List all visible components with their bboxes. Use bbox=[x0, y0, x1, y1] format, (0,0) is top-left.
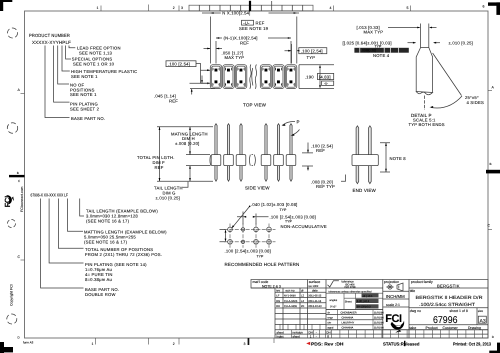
svg-text:2: 2 bbox=[173, 342, 175, 346]
svg-text:Printed: Oct 29, 2013: Printed: Oct 29, 2013 bbox=[453, 342, 491, 347]
header module position 4 (right of break) bbox=[260, 65, 272, 89]
svg-text:SEE NOTE 1: SEE NOTE 1 bbox=[71, 74, 98, 79]
svg-text:Product: Product bbox=[426, 326, 438, 330]
svg-text:tabe: tabe bbox=[410, 326, 417, 330]
svg-text:REF: REF bbox=[155, 165, 164, 170]
chamfer angle leader 25 deg bbox=[433, 53, 462, 96]
svg-text:4 SIDES: 4 SIDES bbox=[467, 100, 484, 105]
svg-text:sheet: sheet bbox=[293, 335, 301, 339]
svg-text:FROM 2 (2X1) THRU 72 (2X36) PO: FROM 2 (2X1) THRU 72 (2X36) POS. bbox=[85, 252, 162, 257]
svg-text:B: B bbox=[17, 171, 19, 175]
svg-text:LZ: LZ bbox=[301, 300, 304, 303]
tab row bbox=[410, 326, 481, 330]
svg-text:RECOMMENDED HOLE PATTERN: RECOMMENDED HOLE PATTERN bbox=[225, 262, 300, 267]
GD&T feature control frame bbox=[354, 48, 408, 53]
svg-text:appd: appd bbox=[328, 327, 334, 330]
svg-text:-: - bbox=[316, 335, 317, 339]
header module position 6 bbox=[285, 65, 297, 89]
corner mark top-left bbox=[0, 0, 12, 2]
svg-text:-U-: -U- bbox=[243, 20, 250, 25]
registration circle 3 left margin bbox=[8, 220, 16, 228]
revision table verticals bbox=[283, 288, 308, 330]
svg-text:MAX TYP: MAX TYP bbox=[225, 55, 245, 60]
corner mark bottom-left bbox=[0, 347, 13, 352]
dimension mating length DIM H bbox=[171, 127, 208, 155]
svg-text:±.008 [0.20]: ±.008 [0.20] bbox=[175, 141, 200, 146]
body break piece bbox=[250, 155, 256, 166]
svg-text:ISO 2768: ISO 2768 bbox=[345, 286, 357, 289]
svg-text:SIDE VIEW: SIDE VIEW bbox=[245, 186, 270, 191]
dimension .008 [0.20] REF TYP bbox=[311, 175, 346, 190]
svg-text:11/01/94: 11/01/94 bbox=[374, 322, 384, 325]
svg-text:(SEE NOTE 16 & 17): (SEE NOTE 16 & 17) bbox=[86, 219, 130, 224]
header module position 2 bbox=[223, 65, 235, 89]
svg-text:BERGSTIK II HEADER D/R: BERGSTIK II HEADER D/R bbox=[416, 295, 484, 300]
svg-text:NOTE 4: NOTE 4 bbox=[373, 53, 390, 58]
bottom mini grid rows bbox=[275, 330, 488, 334]
svg-text:PRODUCT NUMBER: PRODUCT NUMBER bbox=[29, 33, 71, 38]
svg-text:SEE NOTE 1: SEE NOTE 1 bbox=[70, 92, 97, 97]
registration circle 2 left margin bbox=[7, 123, 17, 133]
svg-text:6-30 | ±0.2: 6-30 | ±0.2 bbox=[357, 300, 370, 303]
svg-text:6: 6 bbox=[483, 5, 485, 9]
svg-text:form A3: form A3 bbox=[23, 341, 34, 345]
mini cells in last revision row bbox=[280, 324, 320, 329]
svg-text:2011-05-25: 2011-05-25 bbox=[308, 295, 322, 298]
svg-text:index: index bbox=[277, 335, 285, 339]
dimension .190 [4.83] bbox=[299, 65, 334, 89]
svg-text:SEE NOTE 19: SEE NOTE 19 bbox=[239, 26, 269, 31]
side view pins bbox=[215, 124, 292, 182]
svg-text:Sheet: Sheet bbox=[345, 301, 352, 304]
top border zone ticks and numbers bbox=[97, 5, 485, 11]
svg-text:.100/2.54cc STRAIGHT: .100/2.54cc STRAIGHT bbox=[419, 302, 475, 307]
detail P break line at bottom bbox=[416, 92, 432, 95]
svg-text:[4.83]: [4.83] bbox=[319, 74, 331, 79]
svg-text:ecn no: ecn no bbox=[286, 289, 295, 293]
svg-text:CHIANNA: CHIANNA bbox=[342, 327, 354, 330]
module inner cavity walls bbox=[212, 66, 221, 87]
dimension total pin length DIM F bbox=[137, 127, 175, 181]
svg-text:dr: dr bbox=[301, 289, 304, 293]
svg-text:±.010 [0.25]: ±.010 [0.25] bbox=[449, 40, 474, 45]
svg-text:±.010 [0.25]: ±.010 [0.25] bbox=[156, 195, 181, 200]
svg-text:date: date bbox=[312, 289, 318, 293]
svg-text:TYP: TYP bbox=[285, 219, 292, 223]
svg-text:11/01/94: 11/01/94 bbox=[374, 311, 384, 314]
main vertical dividers bbox=[308, 280, 478, 339]
svg-text:projection: projection bbox=[384, 280, 399, 284]
revision rows bbox=[276, 295, 322, 309]
surface checkmark symbol bbox=[328, 281, 339, 287]
left frame centering mark bbox=[9, 175, 25, 177]
boxed dimension .100 [2.54] left with leader to pin rows bbox=[166, 61, 210, 84]
svg-text:Drawing: Drawing bbox=[468, 326, 481, 330]
svg-text:CU-A-0A05: CU-A-0A05 bbox=[284, 300, 298, 303]
svg-text:1: 1 bbox=[92, 342, 94, 346]
svg-text:.100 [2.54]: .100 [2.54] bbox=[168, 62, 190, 67]
projection column rows bbox=[383, 291, 409, 307]
corner mark top-right bbox=[488, 2, 500, 5]
svg-text:DOUBLE ROW: DOUBLE ROW bbox=[85, 292, 116, 297]
dimension N X.100[2.54] bbox=[202, 11, 299, 64]
svg-text:2: 2 bbox=[173, 6, 175, 10]
svg-text:LF: LF bbox=[276, 295, 279, 298]
header module position 3 bbox=[235, 65, 247, 89]
revision table header bbox=[276, 289, 318, 293]
svg-text:END VIEW: END VIEW bbox=[353, 188, 377, 193]
registration circle 4 left margin bbox=[7, 314, 17, 324]
svg-text:ZK: ZK bbox=[301, 305, 305, 308]
svg-text:scale 2:1: scale 2:1 bbox=[386, 303, 400, 307]
svg-text:CU-A-1655: CU-A-1655 bbox=[284, 305, 298, 308]
tree drop lines bbox=[45, 46, 70, 118]
inner corner details of modules bbox=[213, 68, 295, 87]
svg-text:Customer: Customer bbox=[443, 326, 459, 330]
svg-text:rev: rev bbox=[276, 289, 281, 293]
end view pins bbox=[356, 126, 371, 184]
leader for .040 dim bbox=[233, 207, 250, 228]
svg-text:BERGSTIK: BERGSTIK bbox=[437, 284, 460, 289]
svg-text:engr: engr bbox=[328, 317, 333, 320]
svg-text:STATUS:Released: STATUS:Released bbox=[383, 342, 420, 347]
svg-text:N X.100[2.54]: N X.100[2.54] bbox=[222, 11, 250, 16]
boxed dimension .100 [2.54] TYP right bbox=[285, 44, 327, 64]
third angle projection symbol bbox=[388, 285, 392, 289]
svg-text:REF TYP: REF TYP bbox=[316, 184, 335, 189]
pin cross-sections top row bbox=[215, 69, 293, 72]
svg-text:-U-: -U- bbox=[324, 82, 328, 86]
svg-text:11/01/94: 11/01/94 bbox=[374, 317, 384, 320]
svg-text:2013-10-23: 2013-10-23 bbox=[308, 305, 322, 308]
svg-text:MAX TYP: MAX TYP bbox=[364, 30, 384, 35]
svg-text:dr: dr bbox=[328, 311, 330, 314]
header module position 5 bbox=[273, 65, 285, 89]
svg-text:[].025 [0.64]±.001 [0.03]: [].025 [0.64]±.001 [0.03] bbox=[343, 40, 392, 45]
break lines in top view body bbox=[250, 65, 251, 89]
header row line bbox=[251, 287, 488, 289]
dimension NOTE 8 bbox=[380, 143, 406, 172]
svg-text:P: P bbox=[297, 120, 300, 125]
svg-text:dwg no: dwg no bbox=[410, 309, 421, 313]
svg-text:surface: surface bbox=[309, 280, 321, 284]
svg-text:size: size bbox=[478, 309, 484, 313]
revision table row lines bbox=[275, 292, 326, 324]
title block outline bbox=[251, 280, 488, 339]
bottom border zone ticks and numbers bbox=[92, 342, 246, 346]
dimension .100 [2.54] +-.003 [0.08] TYP horizontal bbox=[243, 212, 256, 225]
svg-text:REF: REF bbox=[240, 40, 249, 45]
registration circle 1 left margin bbox=[8, 28, 18, 38]
svg-text:67996: 67996 bbox=[433, 315, 458, 326]
size A3 bbox=[478, 316, 486, 323]
svg-text:TYP: TYP bbox=[257, 254, 264, 258]
dimension .100 [2.54] REF right of side view bbox=[302, 143, 333, 171]
dimension .045 [1.14] REF bbox=[154, 76, 215, 104]
dimension .050 [1.27] MAX TYP bbox=[204, 48, 245, 60]
red status line bbox=[306, 342, 491, 347]
left end radius of body bbox=[209, 155, 212, 165]
svg-text:TYP: TYP bbox=[307, 55, 316, 60]
svg-text:PDS: Rev :DH: PDS: Rev :DH bbox=[311, 342, 344, 347]
hole circles row 2 bbox=[228, 240, 233, 245]
svg-text:DG: DG bbox=[276, 300, 280, 303]
scale strip top center bbox=[189, 1, 313, 11]
svg-text:.100 [2.54]: .100 [2.54] bbox=[301, 49, 323, 54]
svg-text:5: 5 bbox=[407, 6, 409, 10]
svg-text:NOTE 8: NOTE 8 bbox=[390, 156, 407, 161]
svg-text:REF: REF bbox=[256, 20, 265, 25]
svg-text:67996-X XX-XXX XXX LF: 67996-X XX-XXX XXX LF bbox=[31, 193, 69, 198]
svg-text:3: 3 bbox=[181, 6, 183, 10]
svg-text:FCI: FCI bbox=[385, 313, 402, 325]
svg-text:≤6 | ±0.1: ≤6 | ±0.1 bbox=[363, 295, 374, 298]
svg-text:CHIANNA: CHIANNA bbox=[342, 317, 354, 320]
svg-text:DH: DH bbox=[276, 305, 280, 308]
sheet index labels bbox=[277, 331, 331, 339]
svg-text:B: B bbox=[490, 162, 492, 166]
svg-text:CHENBAKER: CHENBAKER bbox=[341, 311, 357, 314]
svg-text:REF: REF bbox=[316, 148, 325, 153]
svg-text:Copyright FCI: Copyright FCI bbox=[10, 284, 14, 306]
svg-text:SEE SHEET 2: SEE SHEET 2 bbox=[70, 107, 100, 112]
dimension extension lines side view bbox=[157, 127, 213, 181]
svg-text:.190: .190 bbox=[305, 75, 314, 80]
hole circles row 1 bbox=[228, 227, 233, 232]
svg-text:SEE NOTE 1 OR 10: SEE NOTE 1 OR 10 bbox=[73, 61, 115, 66]
svg-text:BASE PART NO.: BASE PART NO. bbox=[71, 116, 105, 121]
svg-text:angles: angles bbox=[330, 299, 338, 302]
svg-text:FCIconnect.com: FCIconnect.com bbox=[20, 186, 24, 212]
svg-text:REF: REF bbox=[169, 99, 178, 104]
svg-text:11/01/94: 11/01/94 bbox=[374, 327, 384, 330]
svg-text:NON-ACCUMULATIVE: NON-ACCUMULATIVE bbox=[281, 224, 327, 229]
svg-text:.100 [2.54]±.003 [0.08]: .100 [2.54]±.003 [0.08] bbox=[225, 248, 271, 253]
svg-text:2011-11-16: 2011-11-16 bbox=[308, 300, 321, 303]
svg-text:TYP BOTH ENDS: TYP BOTH ENDS bbox=[409, 122, 445, 127]
svg-text:.100 [2.54]±.003 [0.08]: .100 [2.54]±.003 [0.08] bbox=[270, 214, 316, 219]
svg-text:LZ: LZ bbox=[301, 295, 304, 298]
svg-text:4: 4 bbox=[330, 6, 332, 10]
header module position 1 bbox=[210, 65, 222, 89]
svg-text:LMURPHY: LMURPHY bbox=[342, 322, 355, 325]
svg-text:(SEE NOTE 16 & 17): (SEE NOTE 16 & 17) bbox=[84, 240, 128, 245]
svg-text:chr: chr bbox=[328, 322, 332, 325]
FCI logo left margin (rotated) bbox=[3, 195, 14, 207]
svg-text:0°±2°: 0°±2° bbox=[330, 306, 336, 309]
svg-text:sheet 1 of 8: sheet 1 of 8 bbox=[450, 309, 468, 313]
detail P flag arrows on side view bbox=[282, 120, 300, 136]
black bookmark tick in status line bbox=[404, 341, 405, 346]
FCI logo title block bbox=[385, 313, 404, 333]
dimension tail length DIM G bbox=[154, 166, 191, 201]
svg-text:title: title bbox=[410, 289, 416, 293]
dimension .100 [2.54] +-.003 [0.08] vertical row pitch bbox=[220, 229, 226, 241]
svg-text:INCH/MM: INCH/MM bbox=[386, 294, 405, 299]
svg-text:.040 [1.02]±.003 [0.08]: .040 [1.02]±.003 [0.08] bbox=[251, 202, 297, 207]
corner mark bottom-right bbox=[489, 351, 500, 353]
svg-text:A3: A3 bbox=[480, 318, 486, 324]
svg-text:30-120|±0.3: 30-120|±0.3 bbox=[357, 306, 371, 309]
hole pattern centerlines bbox=[224, 229, 276, 241]
detail P pin tip outline bbox=[421, 24, 429, 48]
end view body bbox=[352, 155, 378, 166]
svg-text:NY1-0090: NY1-0090 bbox=[284, 295, 296, 298]
svg-text:SEE NOTE 1,13: SEE NOTE 1,13 bbox=[79, 51, 113, 56]
approval names table bbox=[326, 310, 488, 330]
svg-text:XXXXX-XYYHPLF: XXXXX-XYYHPLF bbox=[32, 40, 71, 45]
dimension (N-1)X.100[2.54] REF bbox=[216, 36, 291, 64]
detail P centerline below bbox=[424, 96, 426, 111]
datum box -U- REF bbox=[242, 20, 254, 25]
tree drop lines bbox=[41, 199, 84, 289]
side view body blocks bbox=[211, 155, 296, 166]
svg-text:8=0.38μm Au: 8=0.38μm Au bbox=[85, 277, 113, 282]
svg-text:1: 1 bbox=[97, 6, 99, 10]
svg-text:product family: product family bbox=[411, 280, 433, 284]
pin cross-sections bottom row bbox=[215, 80, 293, 83]
svg-text:TOP VIEW: TOP VIEW bbox=[243, 103, 267, 108]
svg-text:3: 3 bbox=[244, 342, 246, 346]
svg-text:TYP: TYP bbox=[280, 208, 287, 212]
